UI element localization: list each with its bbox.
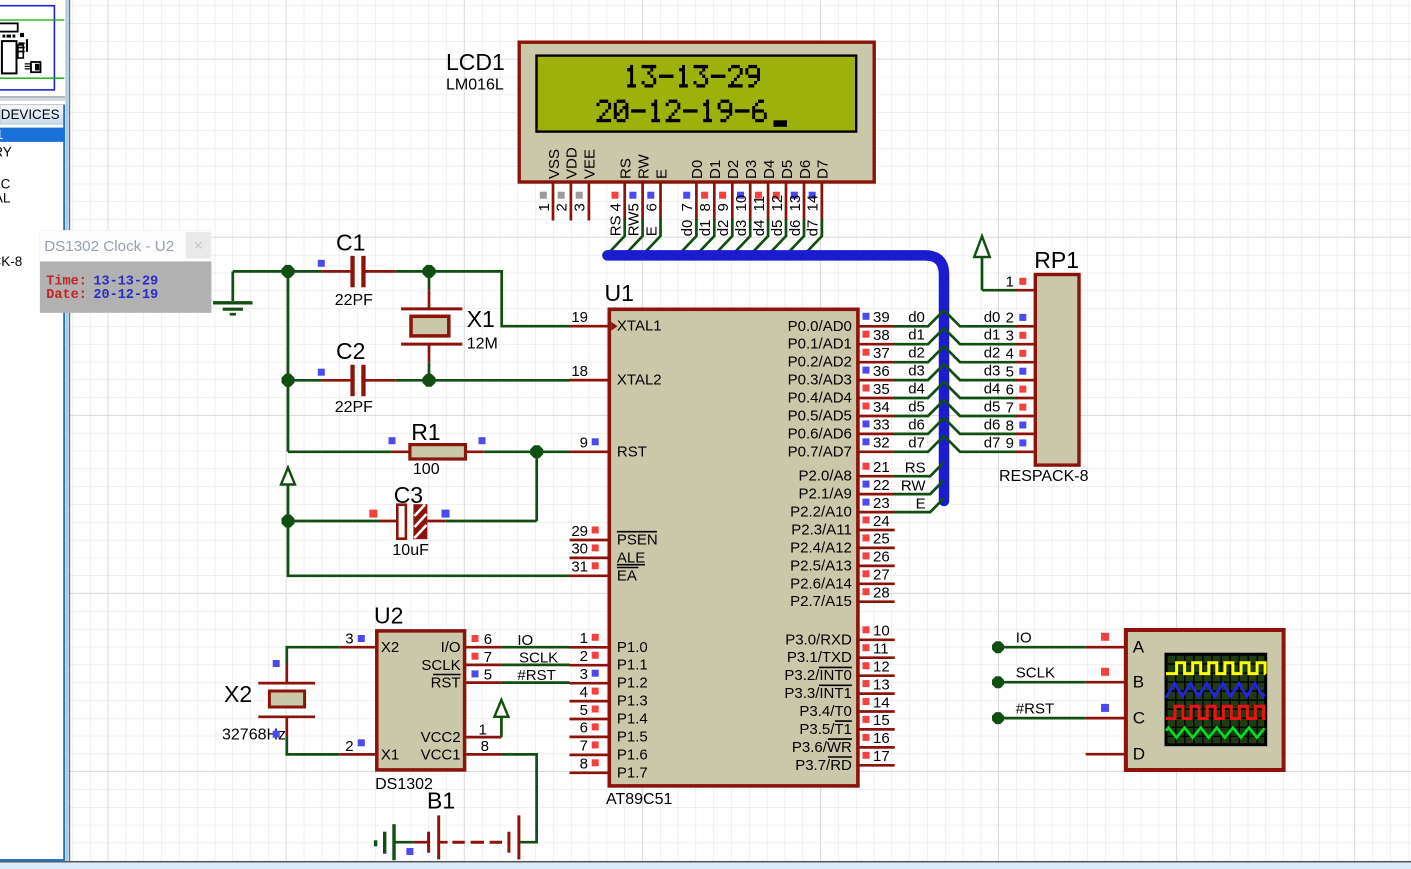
- svg-text:15: 15: [873, 712, 890, 729]
- svg-text:P0.2/AD2: P0.2/AD2: [788, 354, 852, 371]
- wire X2 top to U2 pin3: [287, 647, 339, 664]
- RP1 pin 7: [1006, 399, 1034, 416]
- svg-text:RST: RST: [617, 443, 647, 460]
- svg-text:14: 14: [805, 195, 822, 212]
- RP1 pin 1: [1006, 274, 1034, 291]
- wire U1 P0.6 to bus, net d6: [894, 416, 944, 434]
- svg-text:C3: C3: [394, 482, 423, 508]
- svg-text:RW: RW: [635, 153, 652, 179]
- wire U1 P0.0 to bus, net d0: [894, 309, 944, 327]
- svg-text:VCC1: VCC1: [421, 746, 461, 763]
- svg-text:X1: X1: [467, 306, 495, 332]
- C2 value 22PF: [335, 399, 373, 416]
- U1 pin 23 P2.2/A10: [790, 495, 895, 521]
- U1 pin 5 P1.4: [570, 702, 648, 728]
- battery B1: [413, 815, 520, 859]
- U1 pin 1 P1.0: [570, 630, 648, 656]
- svg-text:d7: d7: [984, 434, 1001, 451]
- wire U2 IO to U1 P1.0: [501, 632, 569, 649]
- svg-text:14: 14: [873, 694, 890, 711]
- svg-text:4: 4: [580, 684, 588, 701]
- svg-text:P1.2: P1.2: [617, 675, 648, 692]
- U1 pin 29 PSEN: [570, 523, 658, 549]
- svg-text:d1: d1: [697, 220, 714, 237]
- svg-text:20-12-19: 20-12-19: [93, 288, 158, 303]
- capacitor C3 electrolytic: [288, 504, 446, 539]
- svg-text:1: 1: [1006, 274, 1014, 291]
- svg-text:13: 13: [873, 676, 890, 693]
- R1 value 100: [413, 461, 440, 478]
- svg-text:d7: d7: [908, 434, 925, 451]
- DS1302 value label: [375, 776, 433, 793]
- svg-text:39: 39: [873, 309, 890, 326]
- wire net SCLK to scope B: [992, 664, 1109, 688]
- U2 pin 3 X2: [339, 631, 399, 657]
- svg-text:d4: d4: [908, 381, 925, 398]
- svg-text:D3: D3: [743, 160, 760, 179]
- svg-text:IO: IO: [1016, 629, 1032, 646]
- node junction C2 right: [423, 374, 436, 387]
- R1 ref label: [411, 419, 440, 445]
- svg-text:3: 3: [572, 203, 589, 211]
- svg-text:34: 34: [873, 399, 890, 416]
- X1 value 12M: [467, 336, 498, 353]
- RP1 pin 6: [1006, 381, 1034, 398]
- svg-text:28: 28: [873, 585, 890, 602]
- ground symbol at battery (rotated): [374, 824, 413, 860]
- svg-text:22PF: 22PF: [335, 292, 373, 309]
- RP1 pin 5: [1006, 364, 1034, 381]
- svg-text:B1: B1: [427, 788, 455, 814]
- svg-text:4: 4: [1006, 346, 1014, 363]
- svg-text:P3.0/RXD: P3.0/RXD: [785, 631, 852, 648]
- X2 value 32768Hz: [222, 727, 286, 744]
- svg-text:6: 6: [580, 720, 588, 737]
- node junction RST row: [530, 445, 543, 458]
- svg-text:9: 9: [715, 203, 732, 211]
- svg-text:36: 36: [873, 363, 890, 380]
- svg-text:30: 30: [571, 541, 588, 558]
- wire U1 P0.7 to bus, net d7: [894, 434, 944, 452]
- svg-text:DS1302: DS1302: [375, 776, 433, 793]
- svg-text:5: 5: [580, 702, 588, 719]
- scope waveform A yellow: [1166, 663, 1266, 674]
- LCD pin 4 RS: [608, 158, 635, 253]
- svg-text:P0.4/AD4: P0.4/AD4: [788, 390, 852, 407]
- U1 pin 14 P3.4/T0: [799, 694, 894, 720]
- svg-text:d1: d1: [908, 327, 925, 344]
- C1 marker square: [318, 260, 325, 267]
- LCD pin 5 RW: [625, 153, 652, 253]
- preview pane blue border: [0, 6, 54, 90]
- U1 pin 10 P3.0/RXD: [785, 623, 895, 649]
- capacitor C1: [288, 256, 429, 287]
- vertical wire C1-C2-R1 column: [288, 271, 392, 451]
- crystal X1: [401, 271, 462, 380]
- wire bus to RP1 pin 7, net d5: [944, 399, 1017, 417]
- scope waveform C red: [1166, 706, 1266, 718]
- svg-text:2: 2: [580, 648, 588, 665]
- svg-text:RESPACK-8: RESPACK-8: [999, 468, 1089, 485]
- U1 pin 31 EA: [570, 559, 639, 585]
- svg-text:10uF: 10uF: [392, 542, 429, 559]
- svg-text:2: 2: [554, 203, 571, 211]
- svg-text:D2: D2: [725, 160, 742, 179]
- svg-text:8: 8: [481, 738, 489, 755]
- svg-text:25: 25: [873, 531, 890, 548]
- LCD pin 10 D3: [733, 160, 760, 254]
- svg-text:RP1: RP1: [1034, 247, 1079, 273]
- svg-text:CAP-ELEC: CAP-ELEC: [0, 177, 11, 192]
- wire U2 SCLK to U1 P1.1: [501, 650, 569, 667]
- U1 pin 13 P3.3/INT1: [784, 676, 894, 702]
- svg-text:13: 13: [787, 195, 804, 212]
- U1 pin 15 P3.5/T1: [799, 712, 894, 738]
- LCD pin 8 D1: [697, 160, 724, 254]
- svg-text:RST: RST: [431, 675, 461, 692]
- svg-text:LCD1: LCD1: [446, 49, 505, 75]
- capacitor C2: [288, 365, 429, 396]
- U1 pin 33 P0.6/AD6: [788, 417, 895, 443]
- svg-text:1: 1: [580, 630, 588, 647]
- svg-text:P2.6/A14: P2.6/A14: [790, 575, 852, 592]
- svg-text:E: E: [916, 495, 926, 512]
- U1 pin 12 P3.2/INT0: [784, 659, 894, 685]
- svg-text:d3: d3: [984, 363, 1001, 380]
- svg-text:d6: d6: [908, 416, 925, 433]
- oscilloscope pin D: [1086, 745, 1145, 764]
- svg-text:5: 5: [625, 203, 642, 211]
- C2 ref label: [336, 338, 365, 364]
- crystal X2: [258, 664, 315, 736]
- svg-text:RS: RS: [905, 459, 926, 476]
- wire C2 row to XTAL2: [429, 379, 570, 382]
- svg-text:3: 3: [1006, 328, 1014, 345]
- device list selected row (AT89C51): [0, 127, 64, 142]
- svg-text:26: 26: [873, 549, 890, 566]
- svg-text:RW: RW: [625, 211, 642, 237]
- U1 pin 24 P2.3/A11: [791, 513, 894, 539]
- wire net IO to scope A: [992, 629, 1109, 653]
- svg-text:P1.0: P1.0: [617, 639, 648, 656]
- power symbol above RP1: [974, 236, 990, 290]
- svg-text:d2: d2: [984, 345, 1001, 362]
- sidebar splitter band under preview: [0, 96, 65, 101]
- scope waveform B blue: [1166, 683, 1265, 696]
- wire bus to RP1 pin 9, net d7: [944, 434, 1017, 452]
- C3 marker squares: [369, 510, 449, 518]
- LCD cursor: [774, 120, 788, 127]
- svg-text:P0.0/AD0: P0.0/AD0: [788, 318, 852, 335]
- C2 marker square: [318, 369, 325, 376]
- LCD LM016L component body LCD1: [519, 42, 874, 182]
- svg-text:P1.4: P1.4: [617, 711, 648, 728]
- U2 pin 2 X1: [339, 738, 399, 764]
- U1 pin 8 P1.7: [570, 756, 648, 782]
- svg-text:P3.1/TXD: P3.1/TXD: [787, 649, 852, 666]
- RP1 pin 3: [1006, 328, 1034, 345]
- svg-text:D0: D0: [689, 160, 706, 179]
- svg-text:12M: 12M: [467, 336, 498, 353]
- svg-text:1: 1: [479, 722, 487, 739]
- svg-text:B: B: [1133, 673, 1144, 692]
- svg-text:23: 23: [873, 495, 890, 512]
- svg-text:31: 31: [571, 559, 588, 576]
- svg-text:d7: d7: [805, 220, 822, 237]
- wire U1 P2.1 to bus, net RW: [894, 477, 944, 494]
- LM016L value label: [446, 77, 504, 94]
- svg-text:P2.5/A13: P2.5/A13: [790, 557, 852, 574]
- svg-text:P0.1/AD1: P0.1/AD1: [788, 336, 852, 353]
- svg-text:d5: d5: [984, 399, 1001, 416]
- LCD pin 13 D6: [787, 160, 814, 254]
- svg-text:38: 38: [873, 327, 890, 344]
- svg-text:XTAL1: XTAL1: [617, 318, 662, 335]
- op U1 AT89C51 chip body: [609, 309, 858, 786]
- svg-text:3: 3: [580, 666, 588, 683]
- B1 ref label: [427, 788, 455, 814]
- svg-text:100: 100: [413, 461, 440, 478]
- wire U2 RST to U1 P1.2: [501, 667, 569, 684]
- left sidebar panel: [0, 0, 70, 861]
- U1 ref label: [605, 280, 634, 306]
- svg-text:19: 19: [571, 309, 588, 326]
- LCD pin 2 VDD: [554, 147, 581, 220]
- svg-text:d6: d6: [984, 416, 1001, 433]
- svg-text:7: 7: [679, 203, 696, 211]
- svg-text:1: 1: [536, 203, 553, 211]
- svg-text:27: 27: [873, 567, 890, 584]
- RESPACK-8 value label: [999, 468, 1089, 485]
- oscilloscope screen: [1166, 654, 1266, 745]
- svg-text:AT89C51: AT89C51: [606, 791, 673, 808]
- svg-text:6: 6: [643, 203, 660, 211]
- svg-text:d3: d3: [733, 220, 750, 237]
- U2 pin 6 I/O: [441, 631, 502, 656]
- B1 marker square: [406, 848, 413, 855]
- wire U1 P0.2 to bus, net d2: [894, 345, 944, 363]
- svg-text:6: 6: [484, 631, 492, 648]
- svg-text:10: 10: [733, 195, 750, 212]
- svg-text:SCLK: SCLK: [519, 650, 558, 667]
- svg-text:D7: D7: [815, 160, 832, 179]
- scope waveform D green: [1166, 728, 1265, 738]
- svg-text:3: 3: [345, 631, 353, 648]
- U1 pin 37 P0.2/AD2: [788, 345, 895, 371]
- svg-text:d2: d2: [908, 345, 925, 362]
- wire X2 bottom to U2 pin2: [287, 736, 339, 754]
- svg-text:37: 37: [873, 345, 890, 362]
- svg-text:D5: D5: [779, 160, 796, 179]
- U1 pin 3 P1.2: [570, 666, 648, 692]
- svg-text:d6: d6: [787, 220, 804, 237]
- LCD pin 11 D4: [751, 160, 778, 254]
- RP1 pin 8: [1006, 417, 1034, 434]
- svg-text:RESPACK-8: RESPACK-8: [0, 254, 22, 269]
- U1 pin 19 XTAL1: [570, 309, 662, 335]
- U1 pin 25 P2.4/A12: [790, 531, 895, 557]
- svg-text:P3.7/RD: P3.7/RD: [795, 757, 852, 774]
- svg-text:22: 22: [873, 477, 890, 494]
- svg-text:R1: R1: [411, 419, 440, 445]
- svg-text:P3.5/T1: P3.5/T1: [799, 721, 852, 738]
- wire RST node down to C3: [446, 452, 537, 521]
- wire bus to RP1 pin 6, net d4: [944, 381, 1017, 399]
- C1 value 22PF: [335, 292, 373, 309]
- wire U1 P0.3 to bus, net d3: [894, 363, 944, 381]
- wire C1 row to XTAL1: [429, 271, 570, 326]
- LCD screen: [537, 56, 857, 132]
- U2 pin 7 SCLK: [421, 649, 501, 674]
- node junction C1 left column: [282, 265, 295, 278]
- svg-text:SCLK: SCLK: [421, 657, 460, 674]
- wire U1 P2.2 to bus, net E: [894, 495, 944, 512]
- X2 ref label: [224, 681, 252, 707]
- svg-text:C: C: [1133, 709, 1145, 728]
- svg-text:9: 9: [580, 435, 588, 452]
- svg-text:#RST: #RST: [1016, 700, 1054, 717]
- svg-text:P1.6: P1.6: [617, 746, 648, 763]
- power symbol above U2 VCC2: [494, 700, 508, 737]
- svg-text:SCLK: SCLK: [1016, 664, 1055, 681]
- U1 pin 38 P0.1/AD1: [788, 327, 895, 353]
- svg-text:VEE: VEE: [582, 149, 599, 179]
- svg-text:16: 16: [873, 730, 890, 747]
- svg-text:D6: D6: [797, 160, 814, 179]
- svg-text:CRYSTAL: CRYSTAL: [0, 190, 11, 205]
- U1 pin 17 P3.7/RD: [795, 748, 895, 774]
- svg-text:D1: D1: [707, 160, 724, 179]
- svg-text:8: 8: [1006, 417, 1014, 434]
- U1 pin 26 P2.5/A13: [790, 549, 895, 575]
- svg-text:P0.5/AD5: P0.5/AD5: [788, 408, 852, 425]
- U1 pin 21 P2.0/A8: [799, 459, 895, 485]
- oscilloscope pin C: [1086, 709, 1145, 728]
- U1 pin 18 XTAL2: [570, 363, 662, 389]
- LCD pin 3 VEE: [572, 149, 599, 221]
- svg-text:BATTERY: BATTERY: [0, 145, 12, 160]
- LCD pin 7 D0: [679, 160, 706, 254]
- wire bus to RP1 pin 5, net d3: [944, 363, 1017, 381]
- U1 pin 30 ALE: [570, 541, 646, 567]
- svg-text:2: 2: [1006, 310, 1014, 327]
- svg-text:P2.1/A9: P2.1/A9: [799, 486, 852, 503]
- svg-text:11: 11: [873, 641, 889, 658]
- power symbol above C3: [281, 468, 295, 522]
- R1 marker squares: [389, 437, 486, 444]
- svg-text:4: 4: [608, 203, 625, 211]
- svg-text:35: 35: [873, 381, 890, 398]
- wire bus to RP1 pin 3, net d1: [944, 327, 1017, 345]
- U1 pin 35 P0.4/AD4: [788, 381, 895, 407]
- tooltip DS1302 Clock - U2: [40, 230, 212, 313]
- svg-text:E: E: [653, 169, 670, 179]
- svg-text:d4: d4: [984, 381, 1001, 398]
- LCD display text line 1: [627, 65, 760, 88]
- C3 ref label: [394, 482, 423, 508]
- oscilloscope pin B: [1086, 673, 1144, 692]
- svg-text:I/O: I/O: [441, 639, 461, 656]
- RP1 pin 4: [1006, 346, 1034, 363]
- svg-text:DEVICES: DEVICES: [1, 107, 60, 122]
- svg-text:P1.1: P1.1: [617, 657, 648, 674]
- wire bus to RP1 pin 4, net d2: [944, 345, 1017, 363]
- X1 ref label: [467, 306, 495, 332]
- DEVICES header: [0, 105, 64, 124]
- svg-text:P0.3/AD3: P0.3/AD3: [788, 372, 852, 389]
- svg-text:EA: EA: [617, 567, 637, 584]
- node junction C2 left: [282, 374, 295, 387]
- svg-text:8: 8: [580, 756, 588, 773]
- svg-text:P3.3/INT1: P3.3/INT1: [784, 685, 852, 702]
- svg-text:U2: U2: [374, 603, 403, 629]
- RP1 ref label: [1034, 247, 1079, 273]
- wire bus to RP1 pin 8, net d6: [944, 416, 1017, 434]
- svg-text:IO: IO: [517, 632, 533, 649]
- svg-text:P2.4/A12: P2.4/A12: [790, 539, 852, 556]
- svg-text:P2.3/A11: P2.3/A11: [791, 522, 852, 539]
- svg-text:8: 8: [697, 203, 714, 211]
- svg-text:d0: d0: [984, 309, 1001, 326]
- svg-text:P3.2/INT0: P3.2/INT0: [784, 667, 852, 684]
- svg-text:×: ×: [194, 238, 203, 255]
- svg-text:2: 2: [345, 738, 353, 755]
- U1 pin 28 P2.7/A15: [790, 585, 895, 611]
- window splitter vertical band: [65, 0, 70, 861]
- svg-text:RS: RS: [608, 215, 625, 236]
- wire ground to C1 node: [233, 270, 288, 273]
- U1 pin 27 P2.6/A14: [790, 567, 895, 593]
- oscilloscope body: [1126, 630, 1284, 770]
- svg-text:d3: d3: [908, 363, 925, 380]
- svg-text:VDD: VDD: [564, 147, 581, 179]
- LCD pin 1 VSS: [536, 149, 563, 221]
- svg-text:E: E: [643, 226, 660, 236]
- resistor pack RP1 body: [1035, 275, 1079, 466]
- device list item CAP-ELEC: [0, 177, 11, 192]
- node junction C1 right: [423, 265, 436, 278]
- svg-text:P3.4/T0: P3.4/T0: [799, 703, 852, 720]
- svg-text:9: 9: [1006, 435, 1014, 452]
- svg-text:P2.0/A8: P2.0/A8: [799, 468, 852, 485]
- bottom scrollbar strip: [0, 861, 1411, 869]
- wire net #RST to scope C: [992, 700, 1109, 724]
- LCD pin 6 E: [643, 169, 670, 253]
- wire power to RP1 pin 1: [982, 289, 1017, 292]
- svg-text:11: 11: [751, 196, 768, 212]
- svg-text:ALE: ALE: [617, 549, 645, 566]
- U2 pin 1 VCC2: [421, 722, 502, 747]
- svg-text:d5: d5: [908, 399, 925, 416]
- svg-text:32: 32: [873, 435, 890, 452]
- svg-text:21: 21: [873, 459, 890, 476]
- svg-text:X2: X2: [224, 681, 252, 707]
- svg-text:XTAL2: XTAL2: [617, 372, 662, 389]
- svg-text:RS: RS: [618, 158, 635, 179]
- svg-text:33: 33: [873, 417, 890, 434]
- device list item RESPACK-8: [0, 254, 22, 269]
- AT89C51 value label: [606, 791, 673, 808]
- oscilloscope pin A: [1086, 638, 1145, 657]
- wire U1 P0.1 to bus, net d1: [894, 327, 944, 345]
- data/control bus: [607, 255, 944, 501]
- svg-text:DS1302 Clock - U2: DS1302 Clock - U2: [44, 238, 174, 255]
- svg-text:P1.3: P1.3: [617, 693, 648, 710]
- U1 pin 39 P0.0/AD0: [788, 309, 895, 335]
- U1 XTAL1 clock arrow: [611, 322, 617, 331]
- RP1 pin 2: [1006, 310, 1034, 327]
- svg-text:P1.7: P1.7: [617, 764, 648, 781]
